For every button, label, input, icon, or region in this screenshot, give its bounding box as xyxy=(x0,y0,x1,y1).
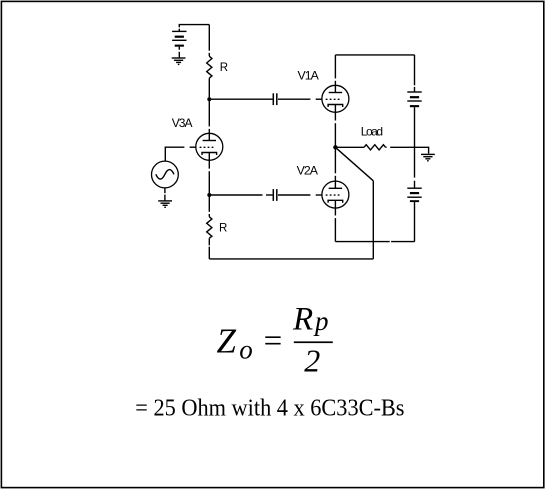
svg-text:V3A: V3A xyxy=(172,116,193,130)
node C (V3A cathode / C2 / R2 junction) xyxy=(207,193,211,197)
triode V1A xyxy=(322,85,349,147)
ground (below battery B3) xyxy=(172,58,186,65)
svg-text:=: = xyxy=(264,323,283,359)
svg-text:2: 2 xyxy=(304,343,320,379)
battery B1 xyxy=(407,87,421,178)
V3A cathode lead xyxy=(208,153,210,169)
svg-text:Load: Load xyxy=(361,125,383,139)
load resistor xyxy=(335,145,428,154)
triode V3A xyxy=(196,133,223,160)
V2A plate lead xyxy=(334,147,336,173)
wire C1 to V1A grid xyxy=(278,98,310,100)
wire node A to C1 xyxy=(209,98,272,100)
source V (sine generator) xyxy=(152,161,179,201)
wire node C to C2 xyxy=(209,194,262,196)
svg-text:R: R xyxy=(219,222,227,234)
triode V2A xyxy=(322,181,349,242)
capacitor C2 xyxy=(273,189,277,201)
V3A grid wire xyxy=(190,146,196,148)
svg-text:= 25 Ohm with 4 x 6C33C-Bs: = 25 Ohm with 4 x 6C33C-Bs xyxy=(135,396,404,422)
ground (right, battery midpoint) xyxy=(421,154,435,161)
svg-text:o: o xyxy=(239,334,253,364)
V2A cathode wire to right rail xyxy=(335,241,389,243)
ground (below source) xyxy=(158,201,172,208)
svg-text:R: R xyxy=(292,302,313,338)
resistor R2 xyxy=(207,195,212,259)
battery B2 xyxy=(407,181,421,242)
svg-text:Z: Z xyxy=(217,321,237,360)
V3A plate lead xyxy=(208,99,210,126)
wire vertical from diagonal xyxy=(372,181,374,259)
wire C2 to V2A grid xyxy=(278,194,310,196)
V1A plate lead xyxy=(334,55,336,79)
top rail wire xyxy=(335,54,414,56)
resistor R1 xyxy=(207,25,212,100)
wire diagonal (node B to bottom rail) xyxy=(336,148,373,181)
right rail top xyxy=(414,55,416,85)
svg-text:p: p xyxy=(313,306,329,336)
battery B3 (top-left) xyxy=(172,25,209,58)
formula Zo = Rp/2 xyxy=(217,302,333,379)
node A (R1 / C1 / V3A plate junction) xyxy=(207,97,211,101)
wire bottom (R2 to vertical) xyxy=(209,258,373,260)
svg-text:V2A: V2A xyxy=(297,164,319,178)
svg-text:R: R xyxy=(220,62,228,74)
capacitor C1 xyxy=(273,93,277,105)
node B (V1A cathode / V2A plate / load junction) xyxy=(333,145,337,149)
svg-text:V1A: V1A xyxy=(298,68,320,82)
